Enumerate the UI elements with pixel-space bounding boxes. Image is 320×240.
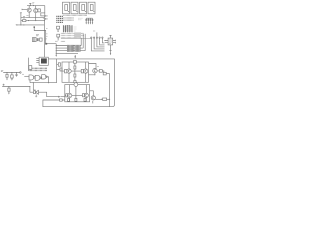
capacitor C3 — [40, 38, 43, 41]
rail arrow — [74, 55, 76, 56]
wire net — [21, 16, 45, 18]
junction dot n4 — [28, 20, 29, 21]
resistor R1 — [38, 9, 41, 12]
pin U4 bottom arrow — [109, 45, 111, 54]
wire vertical — [28, 58, 30, 71]
pin hatch band 2b — [61, 37, 81, 39]
wire net — [21, 20, 45, 22]
signal bracket — [86, 17, 92, 19]
resistor R16 — [75, 98, 77, 101]
junction dot n7 — [23, 24, 24, 25]
blob terminal — [45, 43, 47, 45]
crystal Y2 — [29, 66, 32, 70]
resistor R7 — [81, 69, 83, 73]
junction dot n3 — [29, 17, 30, 18]
wire — [35, 6, 37, 21]
terminal T2 — [45, 18, 47, 19]
wire — [62, 70, 81, 72]
amp stage2 box — [65, 85, 90, 102]
terminal arrow left — [15, 24, 17, 25]
pin hatch row b — [64, 19, 75, 21]
stage1 left column — [56, 59, 58, 83]
junction dot q9 — [109, 99, 110, 100]
wire — [44, 6, 46, 13]
loom pin c3 — [96, 37, 97, 38]
label marks — [79, 18, 83, 20]
resistor R20 top — [74, 61, 77, 64]
display DIS2 — [71, 2, 78, 14]
wire to Q8 — [90, 91, 94, 96]
resistor R15 — [83, 94, 85, 97]
junction dot n2 — [33, 5, 34, 6]
transistor Q8 — [91, 96, 95, 100]
wire vertical right — [109, 74, 111, 107]
connector CN2 — [63, 25, 72, 32]
signal arrow a2 — [88, 18, 89, 24]
label text — [66, 25, 70, 27]
wire — [30, 87, 34, 93]
junction dot n8 — [44, 20, 45, 21]
resistor R19 — [103, 98, 107, 100]
wire to Q5 — [89, 64, 97, 69]
junction dot n1 — [30, 5, 31, 6]
spine arrow — [56, 55, 57, 57]
signal arrow a4 — [92, 18, 93, 24]
wire — [92, 101, 94, 104]
display DIS3 — [80, 2, 87, 14]
wire loop node — [34, 27, 46, 44]
label text — [26, 15, 28, 17]
buzzer LS1 — [34, 89, 39, 97]
junction dot n6 — [20, 24, 21, 25]
junction dot n9 — [44, 30, 45, 31]
wire — [74, 77, 76, 81]
wire — [84, 34, 86, 51]
wire — [28, 12, 30, 17]
wire — [95, 98, 109, 100]
transistor Q7 — [84, 85, 88, 102]
amp stage1 box — [62, 62, 89, 82]
junction dot s2 — [56, 48, 57, 49]
resistor R17 — [68, 99, 70, 102]
resistor R4 — [8, 87, 10, 95]
power rail B — [2, 86, 30, 88]
bus branch 2 — [56, 47, 83, 49]
capacitor C1 — [41, 13, 45, 16]
junction dot s4 — [56, 53, 57, 54]
label text — [97, 66, 99, 68]
signal arrow a1 — [86, 18, 87, 24]
wire stub — [96, 32, 98, 37]
wire input Q1 — [22, 9, 27, 10]
terminal T1 — [45, 15, 47, 16]
resistor R5 — [57, 63, 61, 66]
resistor R12 — [97, 70, 102, 73]
junction dot g1 — [48, 82, 49, 83]
bus spine — [55, 44, 57, 56]
IC U3 — [57, 34, 60, 40]
resistor R10 — [74, 66, 76, 69]
junction dot q8 — [101, 99, 102, 100]
diode D1 — [37, 38, 39, 41]
transistor Q4 — [84, 62, 88, 82]
wire — [47, 77, 48, 83]
IC U4 — [108, 38, 113, 45]
junction dot r4 — [8, 86, 9, 87]
label text LM — [1, 71, 3, 72]
junction dot s1 — [56, 45, 57, 46]
pin hatch band 3 — [61, 40, 66, 42]
junction dot n5 — [35, 20, 36, 21]
resistor R22 input — [57, 68, 62, 71]
pin label row — [64, 14, 88, 16]
display DIS4 — [88, 2, 95, 14]
gate G1 — [29, 75, 35, 80]
wire — [82, 34, 84, 48]
resistor R18 — [84, 99, 86, 102]
junction dot r1 — [6, 72, 7, 73]
wire drop to buzzer — [32, 83, 34, 91]
capacitor C5 — [15, 73, 17, 77]
pin hatch osc 1 — [33, 67, 48, 69]
loom wire w1 — [91, 38, 104, 51]
wire W1 — [46, 43, 56, 45]
gate G2 — [35, 75, 41, 80]
wire — [61, 96, 65, 98]
label block — [74, 32, 81, 37]
wire — [80, 38, 82, 46]
resistor R23 — [60, 99, 63, 101]
pin U4 right — [113, 40, 116, 44]
capacitor C4 — [11, 73, 14, 81]
resistor R13 — [102, 71, 106, 75]
loom pin c5 — [102, 37, 103, 38]
junction dot r5 — [29, 86, 30, 87]
transistor Q3 — [67, 62, 71, 82]
bus branch 4 — [56, 52, 78, 54]
IC U2 — [57, 26, 60, 31]
loom wire w5 — [102, 38, 104, 43]
pin hatch band 1 — [61, 33, 84, 35]
pin U4 left — [105, 41, 108, 43]
label marks — [45, 39, 47, 40]
loom pin c1 — [91, 37, 92, 38]
terminal square — [34, 26, 36, 28]
label text UR — [36, 35, 39, 36]
pin hatch row a — [64, 17, 75, 19]
power rail A — [3, 72, 19, 74]
resistor R11 — [74, 74, 76, 77]
bus branch 3 — [56, 50, 85, 52]
capacitor C2 — [24, 16, 25, 18]
crystal Y1 — [32, 38, 36, 42]
display DIS1 — [63, 2, 70, 14]
resistor R21 bottom — [74, 81, 76, 83]
transistor Q6 — [67, 85, 71, 102]
transistor Q5 — [93, 69, 97, 73]
resistor R6 — [65, 69, 67, 73]
loom pin c2 — [93, 37, 94, 38]
loom wire w2 — [94, 38, 104, 49]
pin hatch band 2 — [61, 35, 84, 37]
label text nv — [43, 17, 46, 19]
connector CN1 — [57, 16, 62, 24]
lamp top — [74, 83, 78, 87]
pin hatch osc 2 — [29, 69, 48, 71]
label text — [55, 40, 58, 42]
terminal circle — [20, 72, 22, 74]
wire mid — [75, 87, 77, 99]
junction dot q5 — [94, 74, 95, 75]
resistor network RN2 — [75, 45, 81, 52]
input arrow — [58, 96, 60, 98]
transistor Q2 — [34, 9, 38, 13]
label plus — [3, 84, 5, 86]
oscillator X1 — [36, 57, 48, 65]
bus branch 1 — [56, 45, 81, 47]
pin marks U2 left — [46, 28, 48, 36]
junction dot u4 — [104, 40, 105, 41]
enclosure border — [43, 59, 115, 107]
loom wire w3 — [97, 38, 105, 47]
wire — [38, 92, 58, 97]
resistor R2 — [23, 20, 26, 22]
wire — [89, 73, 95, 75]
wire top rail — [27, 5, 45, 7]
wire net row — [61, 38, 91, 40]
gate G3 — [42, 75, 48, 79]
supply rail — [48, 58, 114, 60]
transistor Q1 — [27, 8, 31, 12]
wire — [74, 69, 76, 74]
junction dot r2 — [11, 72, 12, 73]
loom wire w4 — [100, 38, 105, 45]
junction dot s3 — [56, 50, 57, 51]
wire — [106, 73, 109, 75]
wire left column — [20, 13, 22, 25]
resistor R3 — [6, 73, 8, 81]
wire — [28, 6, 30, 9]
wire gate output bus — [30, 80, 57, 83]
wire — [24, 75, 29, 77]
wire — [65, 94, 83, 96]
loom pin c4 — [99, 37, 100, 38]
label text — [93, 30, 95, 32]
label text — [22, 73, 24, 75]
resistor network RN1 — [67, 45, 74, 52]
junction dot r3 — [16, 72, 17, 73]
signal arrow a3 — [90, 18, 91, 24]
wire mid chain — [74, 63, 76, 66]
label marks CN2 — [74, 27, 77, 31]
wire main vertical — [43, 16, 45, 57]
pin U4 top — [109, 35, 111, 38]
antenna tick — [29, 4, 31, 6]
resistor R14 — [66, 94, 68, 97]
wire net — [17, 24, 44, 26]
label text — [32, 3, 34, 4]
